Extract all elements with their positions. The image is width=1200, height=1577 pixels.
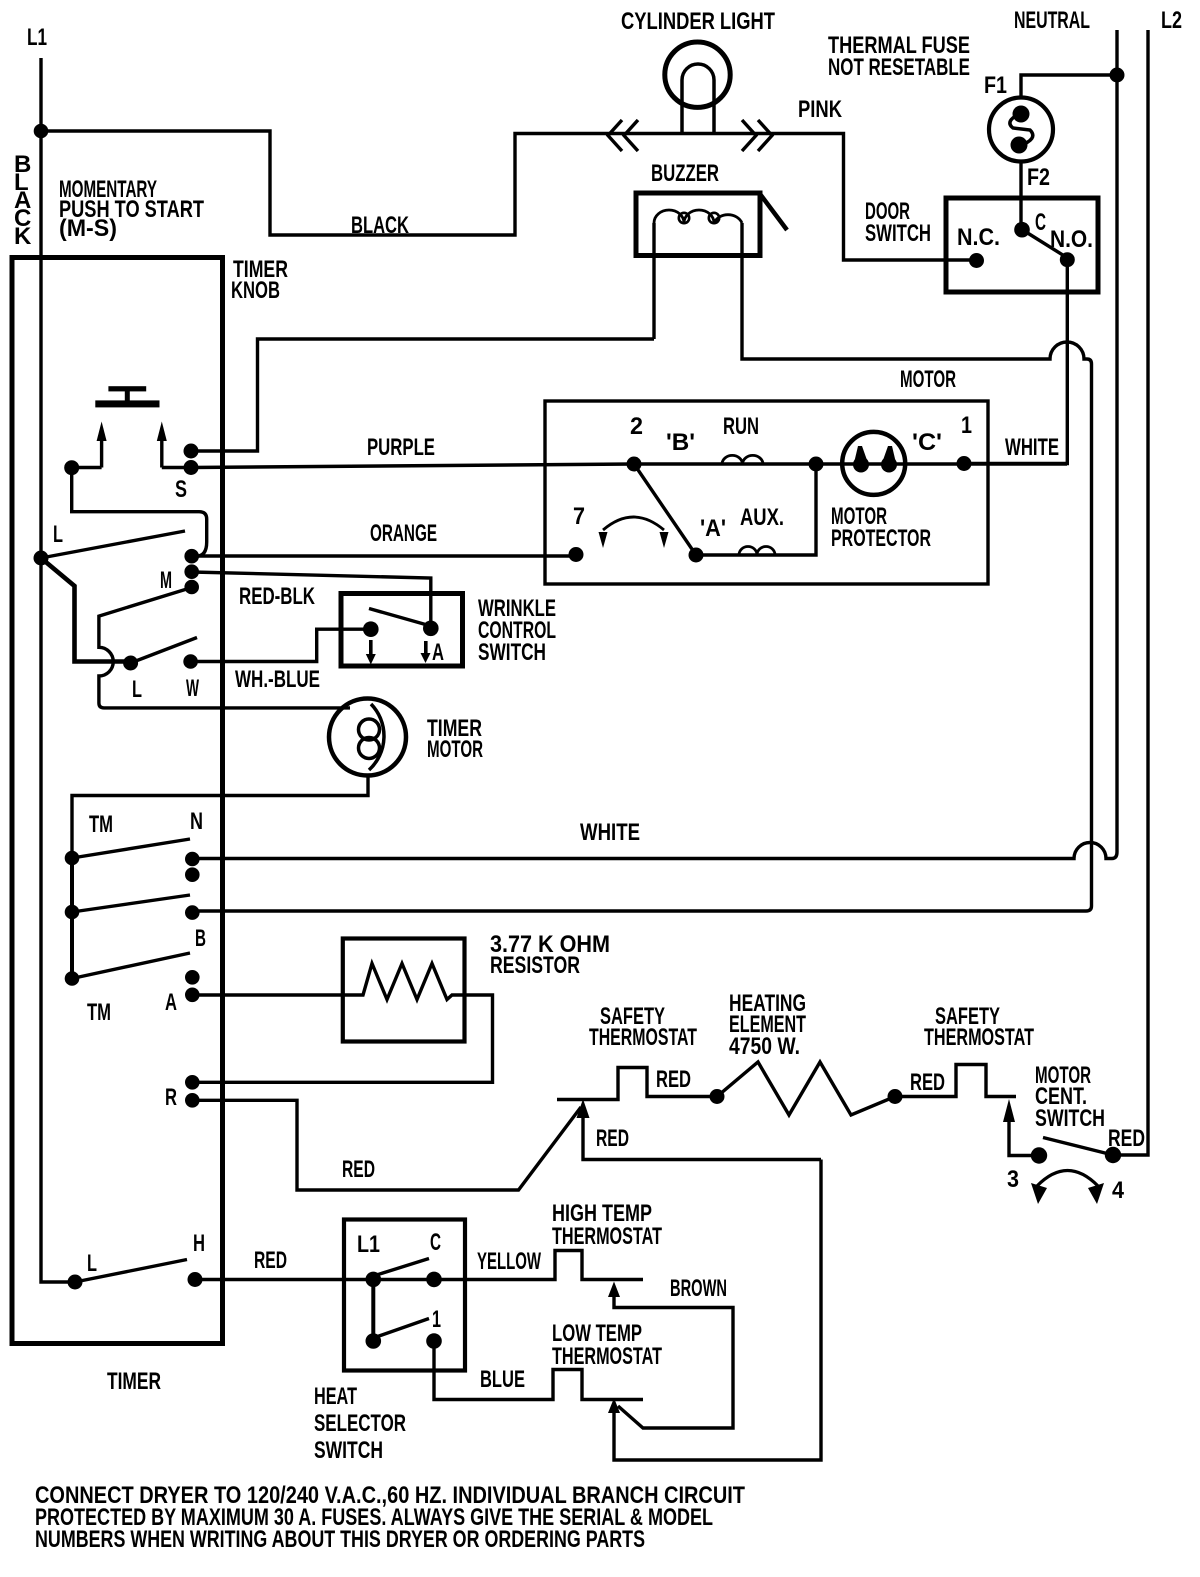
svg-text:L: L: [87, 1250, 97, 1277]
svg-text:'B': 'B': [666, 429, 695, 456]
svg-text:BLUE: BLUE: [480, 1366, 525, 1393]
svg-text:TIMER: TIMER: [107, 1368, 161, 1395]
svg-text:KNOB: KNOB: [231, 277, 280, 304]
svg-text:R: R: [165, 1084, 177, 1111]
svg-text:3: 3: [1007, 1166, 1019, 1193]
svg-text:SELECTOR: SELECTOR: [314, 1410, 406, 1437]
svg-text:BUZZER: BUZZER: [651, 160, 719, 187]
svg-text:PINK: PINK: [798, 96, 843, 123]
svg-text:THERMOSTAT: THERMOSTAT: [924, 1024, 1034, 1051]
svg-text:4: 4: [1112, 1177, 1125, 1204]
svg-text:AUX.: AUX.: [740, 504, 784, 531]
svg-text:RED: RED: [596, 1125, 629, 1152]
svg-text:TM: TM: [89, 811, 113, 838]
svg-text:RED: RED: [254, 1247, 287, 1274]
svg-text:1: 1: [432, 1306, 441, 1333]
svg-text:RED: RED: [656, 1066, 691, 1093]
svg-text:L: L: [53, 521, 63, 548]
svg-text:RED-BLK: RED-BLK: [239, 583, 315, 610]
svg-text:MOTOR: MOTOR: [900, 366, 956, 393]
svg-text:THERMOSTAT: THERMOSTAT: [589, 1024, 697, 1051]
svg-text:SWITCH: SWITCH: [314, 1437, 383, 1464]
svg-text:W: W: [186, 675, 199, 702]
svg-text:L1: L1: [27, 24, 47, 51]
svg-text:RUN: RUN: [723, 413, 759, 440]
svg-text:ORANGE: ORANGE: [370, 520, 437, 547]
svg-text:BROWN: BROWN: [670, 1275, 727, 1302]
svg-text:NEUTRAL: NEUTRAL: [1014, 7, 1090, 34]
svg-text:THERMOSTAT: THERMOSTAT: [552, 1343, 662, 1370]
svg-text:SWITCH: SWITCH: [478, 639, 546, 666]
svg-text:WHITE: WHITE: [1005, 434, 1059, 461]
svg-text:M: M: [160, 567, 172, 594]
svg-text:C: C: [1035, 209, 1046, 236]
svg-text:CYLINDER LIGHT: CYLINDER LIGHT: [621, 8, 775, 35]
svg-text:HEAT: HEAT: [314, 1383, 357, 1410]
svg-text:N.C.: N.C.: [957, 224, 1000, 251]
svg-text:L2: L2: [1161, 7, 1182, 34]
svg-text:B: B: [195, 925, 206, 952]
svg-text:NUMBERS WHEN WRITING ABOUT THI: NUMBERS WHEN WRITING ABOUT THIS DRYER OR…: [35, 1526, 645, 1553]
svg-text:YELLOW: YELLOW: [477, 1248, 541, 1275]
svg-text:TM: TM: [87, 999, 111, 1026]
svg-text:NOT RESETABLE: NOT RESETABLE: [828, 54, 970, 81]
svg-text:A: A: [165, 989, 177, 1016]
svg-text:(M-S): (M-S): [59, 215, 117, 242]
svg-text:THERMOSTAT: THERMOSTAT: [552, 1223, 662, 1250]
svg-text:7: 7: [573, 503, 585, 530]
svg-text:N.O.: N.O.: [1050, 226, 1093, 253]
svg-text:PURPLE: PURPLE: [367, 434, 435, 461]
svg-text:BLACK: BLACK: [351, 212, 409, 239]
svg-text:RED: RED: [910, 1069, 945, 1096]
svg-text:N: N: [190, 808, 203, 835]
svg-text:H: H: [193, 1230, 205, 1257]
svg-text:RED: RED: [1108, 1125, 1145, 1152]
svg-text:SWITCH: SWITCH: [865, 220, 931, 247]
svg-text:L1: L1: [357, 1231, 380, 1258]
svg-text:MOTOR: MOTOR: [427, 736, 483, 763]
svg-text:'C': 'C': [912, 429, 942, 456]
svg-text:'A': 'A': [700, 515, 726, 542]
svg-text:A: A: [432, 639, 444, 666]
svg-text:F1: F1: [984, 72, 1007, 99]
svg-text:RED: RED: [342, 1156, 375, 1183]
svg-text:1: 1: [961, 412, 972, 439]
svg-text:K: K: [14, 223, 32, 250]
svg-text:4750 W.: 4750 W.: [729, 1033, 800, 1060]
svg-text:RESISTOR: RESISTOR: [490, 952, 580, 979]
svg-text:SWITCH: SWITCH: [1035, 1105, 1105, 1132]
svg-text:S: S: [175, 476, 187, 503]
svg-text:WHITE: WHITE: [580, 819, 640, 846]
svg-text:L: L: [132, 676, 142, 703]
svg-text:2: 2: [630, 413, 643, 440]
svg-text:F2: F2: [1027, 164, 1050, 191]
svg-text:WH.-BLUE: WH.-BLUE: [235, 666, 320, 693]
svg-text:PROTECTOR: PROTECTOR: [831, 525, 931, 552]
svg-text:C: C: [430, 1229, 441, 1256]
